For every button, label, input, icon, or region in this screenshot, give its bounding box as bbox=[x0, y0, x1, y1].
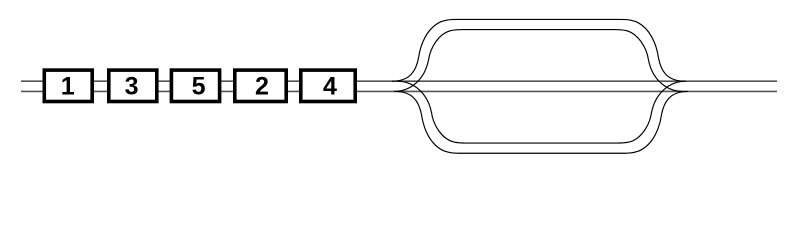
svg-text:2: 2 bbox=[255, 72, 269, 100]
box 5 bbox=[171, 70, 219, 101]
svg-text:5: 5 bbox=[192, 72, 206, 100]
box 1 bbox=[44, 70, 92, 101]
loop: bottom outer strand bbox=[395, 91, 688, 153]
loop: bottom inner strand bbox=[397, 81, 686, 143]
loop: top outer strand bbox=[392, 19, 685, 81]
svg-text:1: 1 bbox=[61, 72, 75, 100]
wire: bottom straight line bbox=[21, 90, 777, 92]
loop: top inner strand bbox=[394, 30, 683, 92]
wire: top straight line bbox=[21, 80, 777, 82]
box 3 bbox=[109, 70, 157, 101]
svg-text:3: 3 bbox=[125, 72, 139, 100]
svg-text:4: 4 bbox=[323, 72, 337, 100]
box 2 bbox=[235, 70, 286, 101]
box 4 bbox=[301, 70, 355, 101]
